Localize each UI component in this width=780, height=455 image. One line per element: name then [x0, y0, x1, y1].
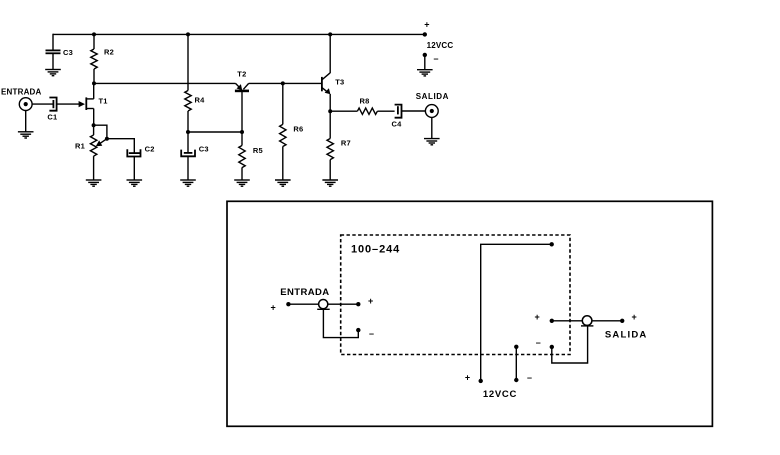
node: 12VCC minus bottom terminal	[514, 378, 518, 382]
svg-text:SALIDA: SALIDA	[416, 92, 449, 101]
svg-text:–: –	[536, 338, 541, 348]
node: 12VCC minus top terminal	[514, 345, 518, 349]
wire: C3 top-left branch from rail	[52, 34, 54, 50]
node: wiper junction	[105, 137, 109, 141]
ground (under ENTRADA)	[18, 132, 34, 138]
node: ENTRADA wire right terminal	[356, 302, 360, 306]
svg-text:T3: T3	[335, 78, 344, 87]
svg-text:+: +	[535, 312, 540, 322]
capacitor C1 (electrolytic, horizontal)	[47, 98, 57, 122]
transistor T2	[235, 69, 249, 132]
wire: ENTRADA to C1	[32, 103, 53, 105]
wire: R2 to second rail	[93, 69, 95, 83]
wire: C1 to T1 gate with arrow	[57, 101, 85, 107]
svg-text:+: +	[368, 296, 373, 306]
node: R4/C3 junction	[186, 130, 190, 134]
wire: node to wiper corner	[94, 125, 107, 139]
ground (under C3 top-left)	[45, 70, 61, 76]
svg-text:R4: R4	[195, 95, 206, 104]
capacitor C3 (top-left, non-polarized)	[46, 48, 74, 57]
svg-text:12VCC: 12VCC	[483, 389, 517, 400]
wire: second rail right segment (T2 collector to T3 base)	[249, 82, 322, 84]
label: - of 12VCC (bottom)	[527, 372, 532, 382]
wire: SALIDA shield return	[552, 326, 588, 364]
svg-text:–: –	[527, 372, 532, 382]
wire: ENTRADA shield return	[323, 309, 358, 337]
resistor R6	[280, 83, 304, 180]
node: SALIDA wire right terminal	[620, 319, 624, 323]
label: + of 12VCC	[424, 20, 429, 30]
wire: C2 to ground	[133, 157, 135, 181]
wire: 12VCC plus lead (up and over)	[481, 244, 552, 381]
outer box	[227, 201, 712, 426]
capacitor C2 (electrolytic, vertical)	[127, 145, 154, 157]
node: rail junction at R4 branch	[186, 32, 190, 36]
svg-text:12VCC: 12VCC	[427, 41, 454, 50]
svg-text:ENTRADA: ENTRADA	[1, 88, 42, 97]
node: junction R2/T1 drain/base rail	[92, 81, 96, 85]
svg-text:C3: C3	[63, 48, 73, 57]
svg-text:–: –	[434, 54, 439, 64]
ground (under R1)	[86, 180, 102, 186]
label: + right of SALIDA wire	[632, 312, 637, 322]
wire: C4 to SALIDA	[402, 110, 426, 112]
label: SALIDA (bottom)	[605, 330, 648, 341]
node: rail junction T3 collector	[328, 32, 332, 36]
wire: rail to R2	[93, 34, 95, 49]
label: + of 12VCC (bottom)	[465, 372, 470, 382]
svg-text:C2: C2	[145, 145, 155, 154]
transistor T1 (FET)	[86, 83, 107, 125]
resistor R8 (horizontal)	[330, 96, 394, 114]
label: - of 12VCC	[434, 54, 439, 64]
wire: rail down to R4 (crosses second rail)	[187, 34, 189, 90]
resistor R4	[185, 91, 205, 112]
ground (under R6)	[275, 180, 291, 186]
ground (under SALIDA)	[424, 139, 440, 145]
node: rail junction at R2 top	[92, 32, 96, 36]
capacitor C3 (electrolytic, mid)	[181, 145, 209, 157]
ground (under R5)	[234, 180, 250, 186]
svg-text:–: –	[369, 328, 374, 338]
label: 12VCC	[427, 41, 454, 50]
ground (under C2)	[127, 180, 143, 186]
wire: wiper node to C2	[107, 139, 134, 153]
svg-text:+: +	[465, 372, 470, 382]
label: + right of ENTRADA wire	[368, 296, 373, 306]
label: + left of ENTRADA	[271, 303, 276, 313]
wire: R4 to node	[187, 111, 189, 132]
svg-text:SALIDA: SALIDA	[605, 330, 648, 341]
label: + left of SALIDA wire	[535, 312, 540, 322]
connector ENTRADA (top schematic)	[1, 88, 42, 111]
svg-text:C4: C4	[392, 119, 403, 128]
node: rail junction at R6	[281, 81, 285, 85]
svg-text:R1: R1	[75, 141, 85, 150]
svg-text:R6: R6	[293, 125, 303, 134]
resistor R7	[327, 111, 351, 180]
node: 12VCC plus bottom terminal	[479, 379, 483, 383]
wire: ENTRADA to ground	[25, 111, 27, 132]
node: ENTRADA wire left terminal	[286, 302, 290, 306]
node: 12VCC minus terminal	[423, 53, 427, 57]
potentiometer R1	[75, 125, 107, 180]
node: T2 base / R5 junction	[240, 130, 244, 134]
resistor R5	[239, 132, 263, 180]
svg-text:+: +	[271, 303, 276, 313]
label: 12VCC (bottom)	[483, 389, 517, 400]
svg-text:C3: C3	[199, 145, 209, 154]
wire: node to R5 node	[188, 131, 242, 133]
wire: +12V top rail	[53, 33, 425, 35]
svg-text:+: +	[632, 312, 637, 322]
wire: SALIDA to ground	[431, 117, 433, 138]
node: T3 emitter / R7 / R8	[328, 109, 332, 113]
svg-text:C1: C1	[47, 113, 57, 122]
wire: 12VCC minus lead	[515, 347, 517, 380]
wire: SALIDA signal wire	[552, 320, 622, 322]
label: - of ENTRADA	[369, 328, 374, 338]
wire: C3 to ground	[52, 53, 54, 69]
svg-text:100–244: 100–244	[351, 244, 400, 256]
ground (12VCC)	[417, 70, 433, 76]
resistor R2	[91, 48, 114, 70]
wire: C3 to ground	[187, 156, 189, 180]
connector: SALIDA plug circle	[581, 316, 593, 326]
ground (under C3 mid)	[180, 180, 196, 186]
node: SALIDA minus terminal	[550, 345, 554, 349]
svg-text:ENTRADA: ENTRADA	[280, 287, 329, 298]
wire: minus terminal to ground	[424, 55, 426, 70]
node: SALIDA wire left terminal	[550, 319, 554, 323]
svg-text:R7: R7	[341, 138, 351, 147]
label: ENTRADA (bottom)	[280, 287, 329, 298]
svg-text:R2: R2	[104, 48, 114, 57]
wire: second rail left segment (to T2 emitter)	[94, 82, 236, 84]
transistor T3 (NPN)	[322, 34, 344, 111]
svg-text:R8: R8	[360, 96, 370, 105]
svg-text:+: +	[424, 20, 429, 30]
svg-text:R5: R5	[253, 146, 263, 155]
wire: node down to C3	[187, 132, 189, 153]
connector: ENTRADA plug circle	[317, 300, 330, 310]
node: T1 source / R1 top	[92, 123, 96, 127]
node: ENTRADA minus terminal	[356, 328, 360, 332]
ground (under R7)	[322, 180, 338, 186]
svg-text:T1: T1	[99, 96, 108, 105]
dashed module box 100-244	[341, 235, 570, 355]
svg-text:T2: T2	[237, 69, 246, 78]
wire: ENTRADA signal wire	[288, 303, 358, 305]
capacitor C4 (electrolytic, horizontal)	[392, 105, 403, 129]
connector SALIDA (top schematic)	[416, 92, 449, 117]
label: - of SALIDA return	[536, 338, 541, 348]
node: +12V rail end terminal	[423, 32, 427, 36]
node: top wire end terminal	[550, 242, 554, 246]
